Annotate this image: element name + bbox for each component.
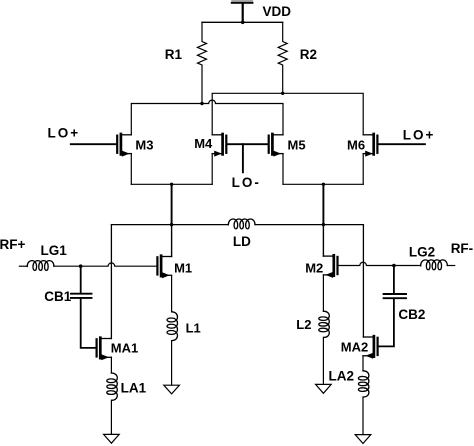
inductor LD bbox=[228, 219, 255, 229]
wire LD rail right bbox=[255, 224, 363, 226]
node VDD junction dot bbox=[241, 21, 245, 25]
wire M1 drain up bbox=[171, 225, 173, 257]
svg-text:R2: R2 bbox=[300, 47, 317, 62]
ground LA1 bbox=[104, 434, 120, 443]
wire tail rail left bbox=[131, 183, 212, 185]
node dot R1 junction bbox=[200, 102, 203, 105]
wire M1 source down bbox=[171, 275, 173, 312]
svg-text:CB1: CB1 bbox=[44, 289, 71, 304]
resistor R2 bbox=[278, 22, 287, 93]
inductor L1 bbox=[167, 312, 178, 341]
wire node A: R1 to M3/M5 drains with hop bbox=[131, 100, 283, 135]
node dot tail right bbox=[322, 183, 325, 186]
wire M5 source down bbox=[282, 154, 284, 185]
wire M6 source down bbox=[362, 154, 364, 185]
wire CB1 to MA1 gate bbox=[81, 299, 96, 348]
inductor LG1 bbox=[27, 261, 54, 271]
wire M3 source down bbox=[130, 154, 132, 185]
wire M4-M5 gate link bbox=[227, 143, 267, 145]
resistor R1 bbox=[198, 22, 207, 103]
svg-text:LA1: LA1 bbox=[121, 380, 147, 395]
node dot CB1 bbox=[79, 264, 83, 268]
ground LA2 bbox=[355, 435, 371, 444]
svg-text:CB2: CB2 bbox=[398, 307, 425, 322]
wire tail left vertical bbox=[171, 184, 173, 224]
node dot R2 junction bbox=[281, 92, 284, 95]
node dot LD left bbox=[170, 223, 173, 226]
svg-text:L2: L2 bbox=[296, 317, 311, 332]
svg-text:LO-: LO- bbox=[232, 175, 261, 190]
ground L1 bbox=[164, 385, 180, 394]
transistor MA2 bbox=[363, 336, 378, 359]
svg-text:VDD: VDD bbox=[263, 4, 292, 19]
wire MA1 drain riser bbox=[110, 225, 112, 339]
transistor M5 bbox=[269, 134, 283, 157]
wire VDD stem bbox=[242, 4, 244, 23]
transistor MA1 bbox=[97, 338, 112, 361]
svg-text:M5: M5 bbox=[288, 138, 306, 153]
svg-text:RF+: RF+ bbox=[0, 237, 25, 252]
svg-text:LD: LD bbox=[233, 234, 251, 249]
svg-text:M1: M1 bbox=[174, 260, 192, 275]
inductor LA2 bbox=[358, 371, 369, 397]
svg-text:MA2: MA2 bbox=[341, 339, 368, 354]
svg-text:M2: M2 bbox=[305, 261, 323, 276]
wire MA2 drain riser bbox=[362, 225, 364, 337]
svg-text:LO+: LO+ bbox=[48, 126, 81, 141]
wire LO+ left bbox=[71, 143, 116, 145]
wire LO+ right bbox=[379, 143, 425, 145]
wire LA2 to ground bbox=[362, 397, 364, 435]
wire RF- from M2 gate with hop bbox=[339, 262, 421, 265]
capacitor CB1 bbox=[71, 266, 92, 298]
svg-text:MA1: MA1 bbox=[111, 341, 138, 356]
capacitor CB2 bbox=[384, 266, 406, 299]
svg-text:M3: M3 bbox=[135, 137, 153, 152]
wire LD rail left bbox=[111, 224, 228, 226]
svg-text:LG1: LG1 bbox=[41, 243, 68, 258]
wire LA1 to ground bbox=[110, 400, 112, 434]
wire top rail bbox=[202, 21, 283, 23]
wire RF- lead-out bbox=[447, 265, 454, 267]
wire tail right vertical bbox=[322, 184, 324, 224]
transistor M1 bbox=[157, 256, 171, 279]
inductor LA1 bbox=[107, 373, 118, 400]
svg-text:LA2: LA2 bbox=[329, 369, 355, 384]
wire L1 to ground bbox=[171, 341, 173, 386]
node dot tail left bbox=[170, 183, 173, 186]
node dot LD right bbox=[322, 223, 325, 226]
wire MA2 source down bbox=[362, 356, 364, 371]
svg-text:M4: M4 bbox=[194, 136, 213, 151]
svg-text:LO+: LO+ bbox=[403, 128, 436, 143]
wire M2 drain up bbox=[322, 225, 324, 257]
wire MA1 source down bbox=[110, 357, 112, 373]
wire LO- stub bbox=[242, 144, 244, 172]
svg-text:R1: R1 bbox=[165, 47, 183, 62]
svg-text:RF-: RF- bbox=[451, 241, 474, 256]
svg-text:LG2: LG2 bbox=[409, 244, 435, 259]
inductor L2 bbox=[319, 311, 330, 337]
transistor M2 bbox=[323, 255, 337, 278]
inductor LG2 bbox=[421, 260, 448, 270]
node dot CB2 bbox=[392, 264, 396, 268]
wire tail rail right bbox=[283, 183, 363, 185]
VDD supply bar bbox=[231, 0, 254, 4]
svg-text:L1: L1 bbox=[186, 321, 201, 336]
wire node B: R2 to M4/M6 drains bbox=[212, 93, 363, 135]
svg-text:M6: M6 bbox=[347, 138, 365, 153]
ground L2 bbox=[316, 384, 332, 393]
wire CB2 to MA2 gate bbox=[379, 299, 394, 346]
transistor M3 bbox=[117, 134, 131, 157]
transistor M6 bbox=[363, 134, 377, 157]
wire RF+ to M1 gate with hop bbox=[54, 263, 156, 266]
wire RF+ lead-in bbox=[19, 265, 27, 267]
transistor M4 bbox=[212, 134, 226, 157]
wire M4 source down bbox=[211, 154, 213, 185]
wire L2 to ground bbox=[322, 337, 324, 384]
wire M2 source down bbox=[322, 275, 324, 311]
